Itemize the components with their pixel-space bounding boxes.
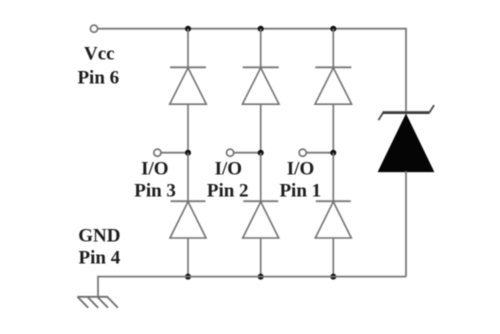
node: I/O junction col 1 bbox=[185, 150, 191, 156]
I/O terminal Pin 1 bbox=[299, 149, 306, 156]
wire: zener anode to GND rail bbox=[405, 171, 407, 277]
svg-text:Pin 1: Pin 1 bbox=[279, 180, 321, 201]
svg-text:Vcc: Vcc bbox=[84, 44, 115, 65]
svg-text:I/O: I/O bbox=[215, 159, 242, 180]
svg-text:GND: GND bbox=[78, 226, 120, 247]
upper diode col 1 (cathode to Vcc) bbox=[170, 67, 207, 104]
wire: col 1 I/O node to lower diode bbox=[187, 153, 189, 201]
wire: Pin 1 stub bbox=[307, 152, 334, 154]
wire: col 3 lower diode to GND rail bbox=[332, 238, 334, 277]
ground bbox=[77, 297, 118, 308]
svg-text:Pin 3: Pin 3 bbox=[134, 180, 176, 201]
zener diode (Vcc clamp) bbox=[378, 105, 434, 172]
wire: GND rail drop to ground symbol bbox=[97, 276, 99, 297]
svg-text:I/O: I/O bbox=[287, 159, 314, 180]
I/O terminal Pin 3 bbox=[154, 149, 161, 156]
upper diode col 3 (cathode to Vcc) bbox=[315, 67, 352, 104]
svg-text:Pin 4: Pin 4 bbox=[79, 247, 121, 268]
upper diode col 2 (cathode to Vcc) bbox=[242, 67, 279, 104]
wire: col 3 I/O node to lower diode bbox=[332, 153, 334, 201]
lower diode col 1 (anode to GND) bbox=[170, 201, 206, 238]
wire: col 3 top rail to upper diode bbox=[332, 29, 334, 67]
I/O terminal Pin 2 bbox=[227, 149, 234, 156]
wire: col 1 top rail to upper diode bbox=[187, 29, 189, 67]
svg-text:Pin 2: Pin 2 bbox=[207, 180, 249, 201]
wire: Pin 3 stub bbox=[161, 152, 188, 154]
svg-text:I/O: I/O bbox=[141, 159, 168, 180]
wire: Vcc top rail bbox=[98, 28, 406, 30]
lower diode col 3 (anode to GND) bbox=[315, 201, 351, 238]
wire: col 2 upper diode to I/O node bbox=[260, 104, 262, 153]
node: GND rail junction col 1 bbox=[185, 274, 191, 280]
wire: col 1 upper diode to I/O node bbox=[187, 104, 189, 153]
node: GND rail junction col 3 bbox=[330, 274, 336, 280]
node: I/O junction col 3 bbox=[330, 150, 336, 156]
wire: col 1 lower diode to GND rail bbox=[187, 238, 189, 277]
node: top rail junction col 3 bbox=[330, 26, 336, 32]
lower diode col 2 (anode to GND) bbox=[243, 201, 279, 238]
wire: right vertical from top rail to zener cathode bbox=[405, 28, 407, 111]
Vcc terminal bbox=[90, 25, 97, 32]
wire: GND bottom rail bbox=[98, 276, 406, 278]
node: top rail junction col 1 bbox=[185, 26, 191, 32]
node: I/O junction col 2 bbox=[258, 150, 264, 156]
wire: col 2 I/O node to lower diode bbox=[260, 153, 262, 201]
node: top rail junction col 2 bbox=[258, 26, 264, 32]
node: GND rail junction col 2 bbox=[258, 274, 264, 280]
wire: col 2 top rail to upper diode bbox=[260, 29, 262, 67]
wire: Pin 2 stub bbox=[234, 152, 261, 154]
wire: col 3 upper diode to I/O node bbox=[332, 104, 334, 153]
svg-text:Pin 6: Pin 6 bbox=[77, 68, 119, 89]
wire: col 2 lower diode to GND rail bbox=[260, 238, 262, 277]
